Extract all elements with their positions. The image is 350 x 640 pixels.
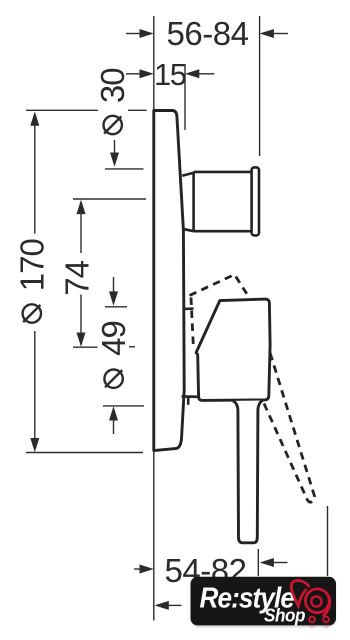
dimension arrow lower row <box>155 601 182 610</box>
dimension O 30 <box>94 68 143 169</box>
stem end cap <box>252 167 259 235</box>
extension line below solid grip <box>257 549 259 576</box>
dimension O 49 <box>95 277 144 434</box>
handle boss <box>196 299 270 400</box>
escutcheon plate outline <box>154 111 184 451</box>
top extension line (plate top tangent) <box>26 109 147 111</box>
svg-text:56-84: 56-84 <box>167 15 249 52</box>
valve stem cylinder <box>182 172 251 231</box>
dashed handle grip (open position) <box>264 351 315 502</box>
dimension O 170 <box>13 112 143 453</box>
dashed handle boss (open position) <box>190 275 249 350</box>
wall extension line <box>153 16 155 621</box>
svg-text:30: 30 <box>94 68 131 103</box>
dimension 56-84 <box>126 15 288 52</box>
cart @ icon <box>291 581 330 628</box>
handle grip lever (closed position) <box>233 401 263 543</box>
logo Re:style Shop <box>191 577 337 627</box>
svg-text:49: 49 <box>95 321 132 356</box>
dimension 54-82 <box>134 552 288 589</box>
extension line right of 15 <box>184 64 186 130</box>
svg-text:15: 15 <box>154 57 186 92</box>
dimension 15 <box>126 57 214 92</box>
extension line right of 56-84 <box>259 16 261 156</box>
extension line below dashed grip tip <box>327 506 329 576</box>
svg-text:170: 170 <box>13 239 50 292</box>
svg-text:74: 74 <box>59 260 96 295</box>
dimension 74 <box>59 199 146 347</box>
handle sleeve <box>182 309 200 405</box>
